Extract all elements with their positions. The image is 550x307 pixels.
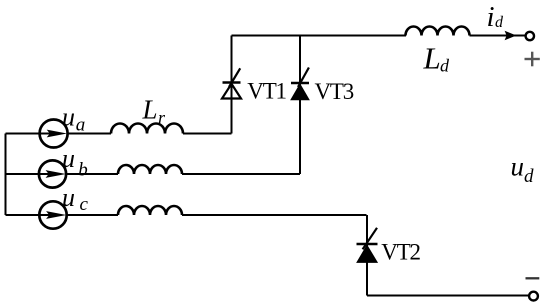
svg-text:i: i (487, 1, 495, 33)
svg-text:a: a (76, 115, 86, 136)
svg-text:VT3: VT3 (315, 79, 354, 104)
svg-text:u: u (62, 103, 75, 132)
svg-text:d: d (495, 14, 504, 31)
svg-text:r: r (158, 108, 166, 128)
svg-text:u: u (62, 144, 75, 173)
svg-text:L: L (423, 41, 441, 76)
svg-text:u: u (511, 152, 525, 182)
svg-text:VT1: VT1 (247, 79, 286, 104)
svg-text:c: c (80, 194, 89, 215)
svg-text:VT2: VT2 (381, 239, 420, 264)
svg-text:b: b (78, 160, 88, 181)
svg-text:d: d (440, 55, 450, 75)
svg-text:L: L (142, 95, 158, 125)
svg-text:u: u (62, 183, 75, 212)
svg-text:d: d (524, 166, 534, 187)
